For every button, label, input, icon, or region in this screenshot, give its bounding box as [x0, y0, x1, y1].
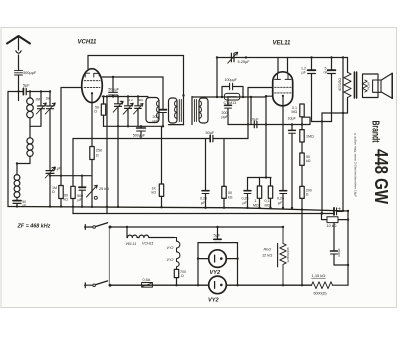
svg-text:µµF: µµF: [222, 115, 229, 119]
capacitor C11: [135, 97, 141, 127]
IF transformer T3 primary rail: [191, 97, 193, 125]
fuse F1: [142, 283, 153, 288]
svg-text:Ω: Ω: [306, 193, 309, 197]
wire x343 B+ riser: [342, 58, 344, 211]
svg-text:448 GW: 448 GW: [371, 149, 391, 204]
resistor R1 50ohm: [103, 97, 105, 105]
svg-text:0,5A: 0,5A: [143, 278, 151, 282]
wire x322 speaker return: [321, 113, 323, 214]
wire x118 to bus: [117, 126, 119, 207]
coil L1: [29, 92, 31, 99]
svg-text:CT-M13: CT-M13: [224, 101, 237, 105]
svg-text:6000(Ω): 6000(Ω): [314, 292, 327, 296]
switch link: [108, 229, 110, 284]
capacitor C5 50uuF: [16, 198, 18, 201]
resistor R7 1M: [259, 178, 261, 187]
svg-text:VEL11: VEL11: [126, 242, 137, 246]
svg-text:kΩ: kΩ: [64, 198, 69, 202]
loudspeaker voice coil: [362, 80, 367, 92]
capacitor C21 10uF series: [254, 121, 257, 127]
svg-text:25 kΩ: 25 kΩ: [99, 187, 109, 191]
wire y124.5: [228, 124, 310, 126]
transformer T2 core: [179, 100, 181, 122]
capacitor C18 0.25uF: [205, 139, 207, 191]
wire rail2 y57.5: [217, 57, 348, 59]
svg-text:VCH11: VCH11: [78, 40, 98, 46]
wire y97: [192, 96, 266, 98]
wire VEL11 cathode down: [282, 97, 284, 191]
capacitor C13 500uuF: [140, 126, 142, 127]
svg-text:µF: µF: [22, 203, 26, 207]
crystal CT-M13 box: [224, 93, 239, 100]
wire VCH11 screen bus y96.5: [102, 96, 148, 98]
wire VCH11 plate y77: [102, 76, 163, 78]
svg-text:50µµF: 50µµF: [108, 88, 120, 92]
svg-text:1M: 1M: [46, 97, 51, 101]
transformer T4 core: [354, 72, 356, 98]
capacitor C23 1.2uF: [311, 58, 313, 70]
wire y121.5: [312, 121, 332, 123]
svg-text:10µF: 10µF: [288, 117, 297, 121]
heater filament VY2 b: [177, 252, 180, 270]
loudspeaker magnet rect: [373, 80, 381, 92]
transformer T3 winding: [199, 98, 208, 123]
wire elbow to R9: [302, 117, 310, 124]
wire left rail x8: [7, 92, 9, 207]
resistor R10 1M: [300, 130, 304, 142]
svg-text:Brandt: Brandt: [369, 121, 380, 143]
wire L2 bottom to x17: [17, 156, 30, 163]
svg-text:32/500/298: 32/500/298: [286, 247, 290, 262]
wire rectifier left rail: [197, 243, 199, 286]
svg-text:10µF: 10µF: [250, 117, 259, 121]
svg-text:VCH11: VCH11: [142, 241, 154, 245]
wire branch y177.5: [248, 177, 272, 179]
svg-text:100µµF: 100µµF: [225, 78, 238, 82]
capacitor C12 200uuF: [162, 77, 164, 109]
wire x50 to bus: [49, 176, 51, 207]
resistor R8 0.1M: [270, 178, 272, 187]
resistor R4 250ohm: [90, 147, 94, 160]
svg-text:1,2: 1,2: [129, 98, 134, 102]
svg-text:+: +: [338, 207, 341, 213]
svg-text:Ω: Ω: [52, 190, 55, 194]
svg-text:50µF: 50µF: [206, 131, 215, 135]
wire top horizontal y91.5: [8, 91, 50, 93]
svg-text:10 kΩ: 10 kΩ: [327, 224, 337, 228]
mains switch S1b: [85, 283, 93, 288]
capacitor C20 0.25uF: [247, 178, 249, 191]
wire rectifier right rail: [237, 243, 239, 286]
junction dots: [17, 90, 19, 92]
capacitor C19 0.25uF cathode: [280, 190, 287, 192]
wire x217 trimmer leg: [216, 58, 218, 98]
mains dropper Rnd 12k zigzag: [280, 227, 286, 285]
wire T2 bottom: [169, 124, 184, 126]
capacitor C26 5uF: [217, 227, 219, 239]
svg-text:100µF: 100µF: [337, 248, 341, 257]
svg-text:Ω: Ω: [96, 154, 99, 158]
tube VEL11 internals: [275, 74, 281, 79]
svg-text:5-25µF: 5-25µF: [238, 60, 251, 64]
svg-text:VY2: VY2: [210, 270, 221, 276]
tube VEL11 envelope: [273, 72, 293, 106]
mains dropper Rnd core: [277, 243, 279, 266]
svg-text:MΩ: MΩ: [265, 203, 271, 207]
rectifier tube VY2 no.2: [209, 276, 227, 294]
svg-text:a. außen mag. wenn 2 Gleichric: a. außen mag. wenn 2 Gleichrichterröhre …: [354, 133, 358, 197]
variable capacitor C9: [115, 97, 122, 127]
heater filament VEL11: [127, 235, 139, 237]
svg-text:12 kΩ: 12 kΩ: [262, 253, 272, 258]
svg-text:3M: 3M: [36, 98, 41, 102]
wire rail1 y55.5: [88, 55, 184, 57]
heater filament VY2 a: [174, 238, 180, 252]
wire rect top y242.6: [198, 242, 238, 244]
svg-text:Ω: Ω: [181, 274, 184, 278]
svg-text:500µµF: 500µµF: [23, 71, 37, 75]
svg-text:Rnd: Rnd: [264, 247, 272, 252]
resistor R11 50k: [300, 153, 304, 165]
potentiometer P1 25k arrow: [87, 185, 98, 197]
capacitor C2 5uF series: [22, 88, 24, 94]
svg-text:1,15 kΩ: 1,15 kΩ: [312, 273, 326, 278]
capacitor C27 100uF branch: [333, 223, 335, 251]
resistor R13 700ohm: [174, 269, 178, 277]
loudspeaker LS1 box: [363, 74, 379, 98]
svg-text:VY2: VY2: [167, 246, 174, 250]
svg-text:1MΩ: 1MΩ: [306, 135, 314, 139]
tube VCH11 envelope: [82, 69, 103, 103]
wire L1 bottom loop: [30, 109, 41, 127]
svg-text:Ω: Ω: [94, 110, 97, 114]
wire antenna stem: [18, 37, 20, 51]
rectifier tube VY2 no.1: [209, 250, 227, 268]
variable capacitor C4: [47, 92, 54, 171]
crystal loop wires: [222, 87, 243, 98]
wire x248 grid VEL11: [248, 88, 273, 139]
bus A ground: [8, 207, 348, 212]
wire 10k line y219.6: [322, 214, 349, 220]
variable capacitor C3: [38, 92, 45, 109]
wire x251: [250, 97, 252, 125]
svg-text:MΩ: MΩ: [253, 203, 259, 207]
resistor R9 0.1M: [300, 104, 304, 117]
mains switch S1a: [85, 225, 93, 230]
antenna: [7, 36, 30, 44]
capacitor C7 50nF: [81, 176, 83, 187]
wire y175.7: [50, 175, 91, 177]
capacitor C25 electrolytic on bus B: [333, 208, 335, 215]
coil L2: [29, 126, 31, 138]
capacitor C1 500uuF antenna: [15, 71, 23, 75]
wire bottom line y285.2: [110, 284, 312, 286]
resistor R14 1.15k zigzag: [312, 282, 333, 289]
wire C1 to node A1: [18, 75, 20, 91]
resistor R2 1M: [60, 176, 62, 186]
transformer T2 secondary: [183, 96, 185, 125]
trimmer capacitor C15 5-25uuF: [231, 53, 234, 62]
wire x17 down: [16, 164, 18, 175]
svg-text:kΩ: kΩ: [152, 191, 157, 195]
wire x302 down: [301, 209, 303, 286]
tube VCH11 internals: [85, 73, 89, 77]
resistor R15 10k: [327, 217, 338, 223]
svg-text:VY2: VY2: [208, 298, 219, 304]
capacitor C24 5nF: [331, 58, 333, 70]
resistor R6 50k: [223, 139, 225, 187]
tube VEL11 top leads: [278, 58, 288, 72]
transformer T3 core: [194, 100, 196, 122]
wire rail1 drop x183.5: [183, 56, 185, 96]
svg-text:7: 7: [120, 99, 122, 103]
svg-text:0,1µF: 0,1µF: [52, 167, 62, 171]
svg-text:µµF: µµF: [153, 119, 160, 123]
IF coil T1: [146, 98, 159, 123]
svg-text:VY2: VY2: [167, 258, 174, 262]
bus B: [73, 213, 333, 215]
wire switch line y227: [110, 226, 283, 228]
wire grid VCH11 y87.5: [61, 88, 82, 176]
capacitor C14 200uuF: [227, 97, 229, 105]
svg-text:500µµF: 500µµF: [133, 134, 146, 138]
wire cathode chain x92: [91, 103, 93, 147]
oscillator transformer T2 winding: [169, 98, 178, 123]
variable capacitor C10: [125, 97, 132, 127]
capacitor C16 100uuF: [230, 83, 233, 89]
loudspeaker cone: [381, 73, 392, 98]
svg-text:5µF: 5µF: [214, 233, 221, 238]
svg-text:VEL11: VEL11: [273, 41, 292, 47]
svg-text:kΩ: kΩ: [228, 195, 233, 199]
svg-text:500: 500: [138, 98, 143, 102]
wire VEL11 screen y96.2: [266, 96, 273, 177]
svg-text:ZF = 468 kHz: ZF = 468 kHz: [17, 224, 51, 230]
svg-text:kΩ: kΩ: [306, 159, 311, 163]
svg-text:250: 250: [96, 149, 102, 153]
capacitor C17 50uF series detector: [73, 138, 248, 140]
wire stub below node A1: [18, 92, 20, 101]
tube VCH11 cathode: [91, 92, 93, 94]
wire y113: [322, 112, 348, 114]
capacitor C6 0.1uF variable: [46, 171, 54, 176]
coil L3: [14, 175, 20, 181]
tube VEL11 cathode: [282, 95, 284, 97]
output transformer T4 primary: [347, 58, 349, 73]
resistor R3 50k: [72, 139, 74, 187]
wire heater feed x127: [126, 227, 128, 238]
wire y285.2 right: [333, 284, 349, 286]
capacitor C22 10uF: [291, 125, 293, 131]
svg-text:RGW: RGW: [367, 82, 371, 90]
svg-text:4000/2Ω: 4000/2Ω: [338, 78, 342, 91]
wire x107 long: [106, 97, 108, 214]
antenna socket hook: [16, 51, 21, 53]
wire x348: [347, 211, 349, 285]
resistor R12 200ohm: [300, 186, 304, 198]
heater filament VCH11: [139, 235, 174, 237]
svg-text:5µF: 5µF: [23, 84, 30, 88]
svg-text:MΩ: MΩ: [292, 110, 298, 114]
wire VCH11 top to rail1: [87, 56, 89, 69]
resistor R5 1k: [161, 126, 163, 184]
wire rail y126.3: [104, 125, 164, 127]
capacitor C8 50uuF: [112, 77, 114, 92]
wire antenna to C1: [18, 55, 20, 71]
